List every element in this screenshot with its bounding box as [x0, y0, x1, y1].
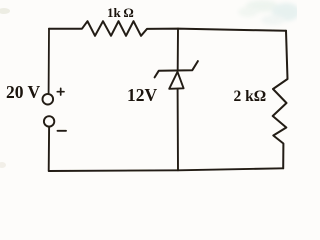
svg-text:2 kΩ: 2 kΩ — [234, 88, 267, 105]
svg-text:20 V: 20 V — [6, 82, 41, 102]
svg-text:12V: 12V — [127, 85, 158, 105]
svg-text:1k Ω: 1k Ω — [107, 5, 134, 20]
